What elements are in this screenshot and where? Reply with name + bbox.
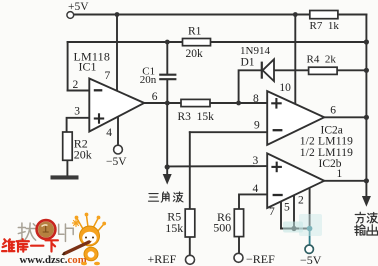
wire square-wave arrow shaft (365, 181, 367, 197)
wire pin4 to -5V (117, 117, 119, 145)
wire right vertical rail (365, 15, 367, 181)
wire R1 to right rail (211, 41, 367, 43)
svg-text:D1: D1 (241, 56, 255, 68)
svg-text:9: 9 (254, 120, 260, 132)
terminal -5V IC2b (305, 245, 313, 253)
svg-text:8: 8 (253, 93, 259, 105)
wire IC1 output (144, 102, 181, 104)
wire feedback top (68, 41, 183, 43)
svg-text:2: 2 (298, 195, 304, 207)
watermark teal patch light (283, 222, 303, 233)
wire +5V rail (74, 14, 310, 16)
svg-text:6: 6 (330, 104, 336, 116)
wire D1 to R4 (274, 69, 309, 71)
svg-text:15k: 15k (165, 221, 183, 235)
wire pin4 input (239, 194, 267, 209)
wire IC2b output (324, 180, 366, 182)
svg-text:5: 5 (284, 202, 290, 214)
wire triangle-wave arrow shaft (166, 167, 168, 175)
wire pin2 inverting input (68, 90, 90, 92)
svg-text:4: 4 (106, 127, 112, 139)
svg-text:7: 7 (269, 206, 275, 218)
wire R5 upper lead (189, 132, 191, 209)
diode D1 (262, 59, 274, 81)
wire C1 bottom lead (166, 80, 168, 103)
svg-text:20n: 20n (140, 74, 157, 86)
arrow triangle-wave output (163, 174, 172, 185)
watermark mascot (62, 213, 107, 266)
label 三角波 triangle-wave output (148, 192, 183, 202)
svg-text:3: 3 (74, 105, 80, 117)
wire R5 lower lead (189, 237, 191, 255)
wire pin7 bottom (280, 201, 282, 228)
node junction dots (115, 12, 369, 231)
svg-text:2: 2 (73, 79, 79, 91)
wire pin9 input (190, 131, 267, 133)
resistor R6 (234, 209, 243, 237)
arrow square-wave output (362, 196, 371, 207)
comparator IC2b (267, 153, 324, 208)
svg-text:500: 500 (213, 220, 231, 234)
resistor R3 (181, 99, 210, 106)
op-amp U1 IC1 (89, 79, 144, 132)
watermark starburst (73, 220, 80, 227)
watermark 维库一下 red (2, 239, 58, 251)
svg-text:20k: 20k (74, 148, 92, 162)
resistor R4 (309, 67, 338, 74)
wire triangle-wave branch (166, 103, 168, 167)
wire R3 to pin8 (210, 102, 267, 104)
svg-text:7: 7 (105, 70, 111, 82)
resistor R1 (183, 39, 211, 46)
wire pin7 supply drop (116, 15, 118, 92)
wire pin3 input (67, 118, 90, 132)
watermark 片 (59, 224, 74, 241)
svg-text:IC1: IC1 (79, 59, 97, 73)
resistor R2 (63, 132, 72, 160)
wire C1 top lead (166, 42, 168, 74)
node teal junction (307, 226, 313, 232)
svg-text:−5V: −5V (106, 156, 127, 168)
wire node to pin3 of IC2b (167, 165, 267, 167)
ground (51, 175, 79, 179)
watermark magnifier logo (37, 220, 56, 239)
wire R6 lower lead (238, 237, 240, 254)
svg-text:4: 4 (253, 183, 259, 195)
svg-text:www.dzsc.com: www.dzsc.com (20, 254, 87, 266)
wire rail after R7 (338, 14, 367, 16)
resistor R7 (310, 11, 338, 19)
terminal +REF (186, 255, 195, 264)
svg-text:3: 3 (253, 155, 259, 167)
label 输出 output (355, 225, 378, 236)
svg-text:6: 6 (152, 91, 158, 103)
wire R4 to rail (337, 69, 366, 71)
svg-text:+REF: +REF (148, 252, 177, 266)
watermark teal patch right (299, 214, 322, 236)
wire feedback left (67, 42, 69, 91)
svg-text:20k: 20k (186, 48, 204, 60)
wire R2 to ground (66, 160, 68, 175)
svg-text:−REF: −REF (246, 252, 275, 266)
wire pin5 bottom (293, 195, 295, 228)
wire pin10 supply drop (294, 15, 296, 105)
terminal -REF (234, 253, 243, 262)
svg-text:1N914: 1N914 (240, 45, 270, 57)
wire bottom tie (281, 228, 310, 230)
svg-text:1/2 LM119: 1/2 LM119 (300, 136, 353, 148)
wire teal segment to -5V (309, 229, 311, 247)
label 方波 square-wave (355, 212, 377, 223)
svg-text:R3 15k: R3 15k (178, 111, 215, 123)
svg-text:R4 2k: R4 2k (307, 53, 337, 65)
watermark 找 (18, 223, 35, 241)
wire D1 anode branch (239, 70, 261, 103)
svg-text:10: 10 (279, 82, 291, 94)
svg-text:+5V: +5V (68, 1, 89, 13)
capacitor C1 (159, 75, 176, 80)
svg-text:R1: R1 (188, 25, 202, 37)
resistor R5 (185, 209, 195, 237)
svg-text:−5V: −5V (300, 253, 322, 266)
terminal +5V (67, 12, 74, 19)
comparator IC2a (267, 91, 324, 145)
svg-text:1: 1 (337, 168, 343, 180)
svg-text:R7 1k: R7 1k (310, 20, 340, 32)
terminal -5V IC1 (114, 145, 123, 154)
wire IC2a output (324, 116, 366, 118)
wire pin2 bottom (309, 188, 311, 229)
